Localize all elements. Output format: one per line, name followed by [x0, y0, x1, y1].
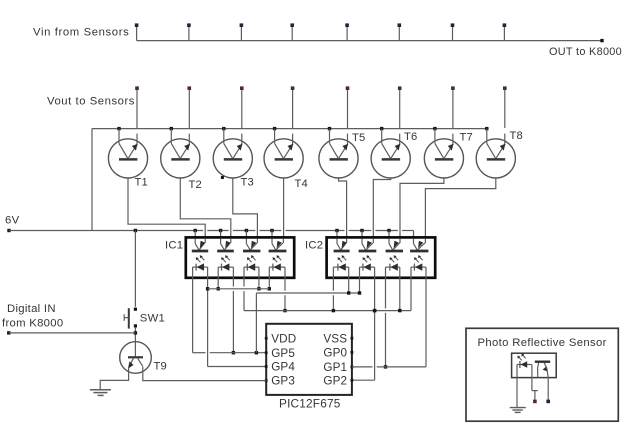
- wire sensor LED anode: [531, 365, 533, 391]
- node digital-in junction: [134, 331, 137, 334]
- label T7: [460, 132, 473, 144]
- wire IC2 led4 right to GP1: [425, 278, 427, 367]
- wire sensor LED cathode to ground: [516, 365, 518, 408]
- pin GP1: [323, 361, 353, 374]
- svg-text:VSS: VSS: [323, 332, 347, 345]
- svg-text:T6: T6: [404, 131, 417, 143]
- phototransistor IC2 channel 3: [386, 238, 403, 251]
- svg-text:GP4: GP4: [271, 361, 295, 374]
- node 6V junction IC2 pin 1: [335, 229, 338, 232]
- node sensor Vin terminal: [546, 400, 550, 404]
- label T2: [189, 179, 202, 191]
- phototransistor IC1 channel 2: [217, 238, 234, 251]
- wire IC2 led3 left to GP1: [385, 278, 387, 367]
- net label "Vin from Sensors": [33, 27, 129, 39]
- wire Vout 4: [292, 90, 294, 146]
- node GP5 bus junction a: [232, 351, 235, 354]
- wire GP2 link: [352, 379, 375, 381]
- ground: [90, 390, 111, 396]
- transistor T6: [371, 129, 410, 178]
- wire Vout 2: [188, 90, 190, 146]
- wire GP5 upper bus: [256, 292, 359, 294]
- wire Vout 3: [241, 90, 243, 146]
- node collector junction T3: [222, 127, 225, 130]
- node 6V terminal: [7, 229, 10, 232]
- node junction near T3: [221, 176, 224, 179]
- wire Vin tap 5: [346, 27, 348, 41]
- node GP1 junction: [384, 365, 387, 368]
- wire bus1: [208, 288, 270, 290]
- phototransistor IC2 channel 4: [410, 238, 428, 251]
- label IC1: [165, 240, 183, 252]
- node collector junction T5: [328, 127, 331, 130]
- svg-text:T4: T4: [295, 178, 308, 190]
- svg-text:Digital IN: Digital IN: [7, 303, 56, 315]
- wire GP5 bus: [193, 352, 267, 354]
- svg-text:GP3: GP3: [271, 375, 295, 388]
- node bus1 junction a: [206, 287, 209, 290]
- svg-text:PIC12F675: PIC12F675: [279, 397, 341, 411]
- svg-text:GP2: GP2: [323, 374, 347, 387]
- node bus1 junction b: [217, 287, 220, 290]
- wire T6 emitter to IC pin: [373, 178, 390, 237]
- node bus1 junction c: [257, 287, 260, 290]
- LED IC1 channel 1: [193, 255, 208, 279]
- wire mid bus: [244, 310, 411, 312]
- wire IC2 supply pin 2: [361, 231, 363, 238]
- phototransistor IC2 channel 2: [359, 238, 377, 251]
- node 6V junction SW1: [134, 229, 137, 232]
- node collector junction T7: [433, 127, 436, 130]
- wire Vout 8: [504, 90, 506, 146]
- wire T4 emitter to IC pin: [283, 178, 285, 237]
- label T1: [135, 177, 148, 189]
- sensor package: [512, 353, 557, 377]
- node Vout terminal 2: [188, 86, 192, 90]
- label T9: [154, 361, 167, 373]
- wire sensor emitter: [547, 378, 549, 400]
- wire OUT bus: [137, 40, 602, 42]
- LED IC2 channel 2: [360, 255, 375, 279]
- svg-text:VDD: VDD: [271, 332, 296, 345]
- svg-text:OUT to K8000: OUT to K8000: [549, 46, 622, 58]
- LED IC2 channel 4: [411, 255, 426, 279]
- wire 6V riser: [91, 129, 93, 231]
- label from K8000: [2, 317, 63, 329]
- node Vout terminal 1: [135, 86, 139, 90]
- node 6V junction IC1 pin 3: [245, 229, 248, 232]
- wire IC1 supply pin 2: [220, 231, 222, 238]
- node Vin terminal 7: [451, 23, 455, 27]
- svg-text:T9: T9: [154, 361, 167, 373]
- node Vout terminal 8: [503, 86, 507, 90]
- node Vout terminal 4: [291, 86, 295, 90]
- wire IC1 led3 left to mid bus: [243, 278, 245, 311]
- label T8: [510, 130, 523, 142]
- wire 6V to SW1: [134, 231, 136, 307]
- microcontroller U1 PIC12F675: [266, 324, 352, 395]
- node mid bus junction e: [373, 309, 376, 312]
- node upper bus junction b: [358, 291, 361, 294]
- svg-text:6V: 6V: [5, 215, 20, 227]
- LED IC1 channel 3: [244, 255, 259, 279]
- phototransistor IC1 channel 3: [243, 238, 260, 251]
- pin GP3: [265, 375, 295, 388]
- node mid bus junction b: [332, 309, 335, 312]
- label T4: [295, 178, 308, 190]
- svg-text:Photo Reflective Sensor: Photo Reflective Sensor: [478, 337, 607, 349]
- wire GP1 link: [352, 366, 426, 368]
- wire IC1 supply pin 4: [271, 231, 273, 238]
- sensor box frame: [466, 328, 618, 421]
- pin VDD: [265, 332, 297, 345]
- svg-text:SW1: SW1: [140, 313, 165, 325]
- node upper bus junction a: [347, 291, 350, 294]
- node collector junction T4: [273, 127, 276, 130]
- wire T5 emitter to IC pin: [339, 178, 347, 237]
- transistor T5: [319, 129, 358, 178]
- LED IC2 channel 3: [386, 255, 400, 279]
- node 6V junction IC1 pin 4: [270, 229, 273, 232]
- svg-text:Vin from Sensors: Vin from Sensors: [33, 27, 129, 39]
- phototransistor IC1 channel 1: [192, 238, 208, 251]
- optocoupler IC2: [327, 237, 436, 277]
- svg-text:T8: T8: [510, 130, 523, 142]
- node Vout terminal 5: [346, 86, 350, 90]
- wire IC1 led4 right: [284, 278, 286, 311]
- node 6V junction IC2 pin 3: [387, 229, 390, 232]
- label Digital IN: [7, 303, 56, 315]
- svg-text:from K8000: from K8000: [2, 317, 63, 329]
- svg-text:T7: T7: [460, 132, 473, 144]
- node Vin terminal 6: [398, 23, 402, 27]
- node OUT endpoint: [600, 39, 603, 42]
- node collector junction T1: [117, 127, 120, 130]
- svg-text:GP5: GP5: [271, 347, 295, 360]
- label T6: [404, 131, 417, 143]
- node Vout terminal 3: [240, 86, 244, 90]
- svg-text:IC1: IC1: [165, 240, 183, 252]
- node Vin terminal 8: [503, 23, 507, 27]
- wire IC2 supply pin 1: [336, 231, 338, 238]
- net label "OUT to K8000": [549, 46, 622, 58]
- node GP5 bus junction b: [255, 351, 258, 354]
- label SW1: [140, 313, 165, 325]
- LED IC1 channel 2: [218, 255, 233, 279]
- label T5: [352, 132, 365, 144]
- node Vin terminal 4: [290, 23, 294, 27]
- wire T8 emitter to IC pin: [425, 178, 495, 237]
- node Vin terminal 1: [135, 23, 139, 27]
- wire digital-in: [9, 332, 136, 334]
- wire T7 emitter to IC pin: [400, 178, 444, 237]
- node 6V junction IC1 pin 1: [194, 229, 197, 232]
- svg-text:GP1: GP1: [323, 361, 347, 374]
- wire IC2 led3 right: [399, 278, 401, 311]
- wire T1 emitter to IC pin: [128, 178, 205, 237]
- label 6V: [5, 215, 20, 227]
- svg-text:T2: T2: [189, 179, 202, 191]
- transistor T4: [264, 129, 303, 178]
- node collector junction T6: [380, 127, 383, 130]
- wire T9 emitter to ground: [100, 368, 128, 390]
- node Vin terminal 3: [240, 23, 244, 27]
- wire T3 emitter to IC pin: [233, 178, 258, 237]
- wire Vout 5: [347, 90, 349, 146]
- wire Vin tap 8: [503, 27, 505, 41]
- wire IC1 led4 left: [268, 278, 270, 289]
- svg-text:T5: T5: [352, 132, 365, 144]
- wire Vin tap 6: [398, 27, 400, 41]
- transistor T7: [424, 129, 463, 178]
- wire Vin tap 7: [452, 27, 454, 41]
- wire GP5 riser: [255, 293, 257, 353]
- wire 6V rail drop to IC2 pin 4: [413, 231, 415, 238]
- svg-text:GP0: GP0: [323, 346, 347, 359]
- wire IC2 led1 left: [332, 278, 334, 311]
- node digital-in terminal: [7, 331, 10, 334]
- node Vout terminal 7: [451, 86, 455, 90]
- wire GP4 link: [208, 366, 267, 368]
- wire IC2 led1 right: [348, 278, 350, 293]
- wire Vout 6: [399, 90, 401, 146]
- svg-text:IC2: IC2: [305, 240, 323, 252]
- wire IC1 led3 right: [258, 278, 260, 289]
- wire sensor junction: [532, 391, 538, 400]
- LED IC2 channel 1: [333, 255, 348, 279]
- wire GP2 riser: [374, 311, 376, 381]
- wire IC1 led1 left to GP5 bus: [192, 278, 194, 353]
- wire Vout 1: [136, 90, 138, 146]
- wire IC1 led2 left: [217, 278, 219, 289]
- label Photo Reflective Sensor: [478, 337, 607, 349]
- wire SW1 to T9: [134, 327, 136, 342]
- node mid bus junction c: [373, 309, 376, 312]
- wire collector rail: [92, 128, 487, 130]
- node mid bus junction a: [283, 309, 286, 312]
- label T3: [241, 177, 254, 189]
- switch SW1: [124, 308, 137, 329]
- pin GP0: [323, 346, 353, 359]
- transistor T1: [108, 129, 147, 178]
- node sensor Vout terminal: [533, 400, 537, 404]
- node Vin terminal 5: [345, 23, 349, 27]
- pin GP2: [323, 374, 353, 387]
- wire Vin tap 3: [240, 27, 242, 41]
- transistor T2: [161, 129, 200, 178]
- node collector junction T8: [485, 127, 488, 130]
- wire IC1 led1 right to GP4: [207, 278, 209, 367]
- wire IC2 supply pin 3: [388, 231, 390, 238]
- svg-text:Vout to Sensors: Vout to Sensors: [47, 96, 135, 108]
- sensor phototransistor: [535, 362, 550, 378]
- wire IC2 led2 left: [359, 278, 361, 293]
- wire Vin tap 4: [291, 27, 293, 41]
- node collector junction T2: [170, 127, 173, 130]
- svg-text:T1: T1: [135, 177, 148, 189]
- wire IC2 led4 left: [410, 278, 412, 311]
- node Vout terminal 6: [398, 86, 402, 90]
- wire Vin tap 1: [136, 27, 138, 41]
- svg-text:T3: T3: [241, 177, 254, 189]
- wire IC2 led2 right: [374, 278, 376, 311]
- optocoupler IC1: [186, 237, 294, 277]
- label IC2: [305, 240, 323, 252]
- phototransistor IC1 channel 4: [269, 238, 287, 251]
- transistor T9: [120, 342, 152, 374]
- label PIC12F675: [279, 397, 341, 411]
- node bus1 junction d: [268, 287, 271, 290]
- LED IC1 channel 4: [269, 255, 285, 279]
- wire IC1 supply pin 1: [194, 231, 196, 238]
- transistor T3: [213, 129, 252, 178]
- node 6V junction IC2 pin 2: [360, 229, 363, 232]
- wire Vin tap 2: [188, 27, 190, 41]
- sensor ground: [510, 408, 526, 413]
- wire T2 emitter to IC pin: [180, 178, 231, 237]
- transistor T8: [476, 129, 515, 178]
- phototransistor IC2 channel 1: [334, 238, 350, 251]
- node Vin terminal 2: [187, 23, 191, 27]
- wire 6V rail: [9, 230, 414, 232]
- net label "Vout to Sensors": [47, 96, 135, 108]
- sensor LED: [517, 354, 532, 368]
- pin VSS: [323, 332, 353, 345]
- node mid bus junction d: [398, 309, 401, 312]
- wire T9 collector to GP3: [143, 367, 266, 381]
- wire Vout 7: [452, 90, 454, 146]
- pin GP5: [265, 347, 296, 360]
- wire IC1 led2 right: [232, 278, 234, 353]
- pin GP4: [265, 361, 296, 374]
- node 6V junction IC1 pin 2: [219, 229, 222, 232]
- wire IC1 supply pin 3: [245, 231, 247, 238]
